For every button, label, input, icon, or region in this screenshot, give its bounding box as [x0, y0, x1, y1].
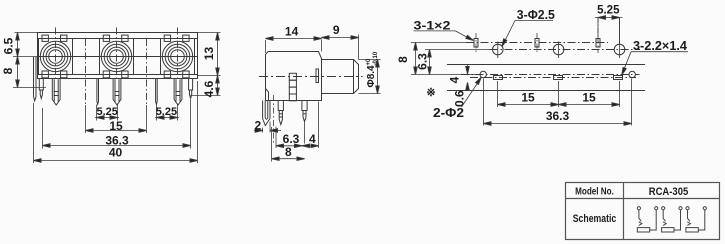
- circle row centerline: [490, 49, 640, 51]
- dim 36.3 left view: [43, 100, 191, 149]
- svg-text:※: ※: [426, 87, 435, 99]
- dim 36.3 right view: [484, 79, 632, 126]
- svg-text:9: 9: [333, 23, 340, 37]
- jack J3 circles: [162, 41, 192, 71]
- label 3-2.2x1.4: [623, 39, 689, 73]
- schematic unit 1: [637, 207, 658, 232]
- mounting bracket left: [34, 57, 37, 101]
- svg-text:6.5: 6.5: [2, 37, 16, 54]
- svg-text:Model No.: Model No.: [575, 185, 614, 197]
- dim 9: [322, 35, 359, 60]
- svg-text:5.25: 5.25: [156, 106, 177, 118]
- jack J2 center line: [116, 28, 118, 81]
- pin P2 shoulder line: [189, 89, 193, 91]
- dim 15 first right view: [498, 81, 620, 107]
- svg-text:36.3: 36.3: [546, 109, 570, 123]
- top slot row centerline: [466, 42, 608, 44]
- schematic unit 2: [662, 207, 683, 232]
- schematic unit 3: [686, 207, 707, 232]
- pin center J2: [113, 79, 121, 106]
- svg-text:6.3: 6.3: [283, 132, 300, 146]
- svg-text:8: 8: [1, 67, 15, 74]
- svg-text:3-2.2×1.4: 3-2.2×1.4: [633, 39, 687, 53]
- svg-text:4: 4: [309, 132, 316, 146]
- svg-text:6.3: 6.3: [415, 53, 429, 70]
- pin thin J2: [97, 79, 99, 105]
- dim phi 8.4: [359, 60, 381, 94]
- hole B1 phi2: [480, 71, 486, 77]
- hole C2 phi2.5: [553, 42, 564, 59]
- dim 5.25 first: [95, 104, 119, 121]
- table frame: [566, 183, 720, 240]
- svg-text:+0: +0: [366, 58, 372, 66]
- dim 14: [266, 39, 322, 54]
- jack J2 circles: [101, 41, 131, 71]
- dim 15 left view: [86, 130, 147, 132]
- svg-text:Φ8.4: Φ8.4: [366, 65, 377, 88]
- table column divider: [623, 183, 625, 240]
- svg-text:8: 8: [285, 145, 292, 159]
- dim 13 and 4.6 right chain: [191, 33, 221, 96]
- svg-text:-0.10: -0.10: [373, 51, 379, 65]
- svg-text:4.6: 4.6: [202, 80, 216, 97]
- jack J3 center line: [177, 28, 179, 81]
- svg-text:2-Φ2: 2-Φ2: [433, 106, 464, 120]
- svg-text:4: 4: [447, 76, 461, 83]
- svg-text:5.25: 5.25: [597, 5, 620, 17]
- pin P1 shoulder line: [39, 89, 43, 91]
- slot T2 2.2x1.4: [554, 76, 563, 80]
- pin center J1: [52, 79, 60, 106]
- jack J1 square: [39, 35, 73, 78]
- svg-text:15: 15: [109, 119, 123, 133]
- jack J2 square: [100, 35, 134, 78]
- dim 15 second right view: [559, 104, 621, 106]
- table header divider: [566, 198, 720, 200]
- dim 6.3 and 4 chain: [276, 102, 319, 149]
- slot T3 2.2x1.4: [614, 76, 623, 80]
- dim 4 right view: [467, 65, 469, 75]
- label 3-1x2: [414, 19, 472, 40]
- svg-text:3-1×2: 3-1×2: [414, 19, 451, 33]
- svg-text:8: 8: [396, 56, 410, 63]
- bracket hook side view: [263, 101, 270, 126]
- barrel axis center line: [259, 76, 363, 78]
- barrel chamfer line: [353, 60, 355, 94]
- dim 6.3 right view: [425, 50, 493, 75]
- label 2-phi2: [433, 79, 480, 120]
- svg-text:RCA-305: RCA-305: [649, 186, 689, 198]
- switch contact ladder: [289, 73, 296, 101]
- slot T1 2.2x1.4: [494, 76, 503, 80]
- dim 8 right view: [411, 43, 480, 75]
- dim 6.5 and 8 left chain: [13, 33, 46, 88]
- svg-text:40: 40: [109, 146, 123, 160]
- bottom slot row centerline: [470, 77, 636, 79]
- svg-text:Schematic: Schematic: [573, 213, 617, 225]
- dim 5.25 top right view: [595, 18, 623, 45]
- svg-text:15: 15: [521, 91, 535, 105]
- dim 0.6 right view: [467, 88, 469, 91]
- pin center J3: [174, 79, 182, 106]
- bottom hole row centerline: [461, 74, 640, 76]
- side body nub right: [316, 69, 319, 83]
- board edge line bottom: [447, 90, 645, 92]
- dim 8 middle: [272, 127, 305, 162]
- hole C1 phi2.5: [493, 42, 504, 59]
- pin thin J3: [156, 79, 158, 105]
- label 3-phi2.5: [503, 8, 555, 45]
- svg-text:2: 2: [254, 119, 261, 133]
- svg-text:5.25: 5.25: [96, 106, 117, 118]
- board edge line top: [447, 64, 645, 66]
- svg-text:13: 13: [202, 47, 216, 61]
- barrel: [322, 60, 359, 94]
- pin P1 left shoulder pin: [39, 79, 43, 99]
- slot S2 1x2: [535, 33, 539, 53]
- hole B2 phi2: [629, 71, 635, 77]
- hole C3 phi2.5: [614, 18, 625, 59]
- body housing outline: [38, 33, 198, 79]
- dim 40: [34, 81, 198, 163]
- slot S3 1x2: [596, 18, 600, 54]
- bracket centerline: [272, 95, 274, 144]
- dim 2: [254, 122, 281, 133]
- svg-text:15: 15: [582, 91, 596, 105]
- pin P2 right shoulder pin: [189, 79, 193, 99]
- jack J1 circles: [40, 41, 70, 71]
- dim text phi 8.4 tolerance: [366, 51, 379, 87]
- slot S1 1x2: [474, 33, 478, 53]
- side body outline: [266, 52, 322, 101]
- side pin 2 switch pin: [302, 101, 307, 144]
- side pin 1: [278, 101, 283, 125]
- jack J1 center line: [55, 28, 57, 81]
- svg-text:0.6: 0.6: [452, 90, 466, 107]
- side body notch left: [266, 89, 269, 101]
- dim 5.25 second: [155, 104, 179, 121]
- svg-text:3-Φ2.5: 3-Φ2.5: [517, 8, 555, 22]
- centerline between J1 J2: [85, 39, 87, 133]
- centerline between J2 J3: [146, 39, 148, 133]
- jack J3 square: [161, 35, 195, 78]
- svg-text:14: 14: [285, 25, 299, 39]
